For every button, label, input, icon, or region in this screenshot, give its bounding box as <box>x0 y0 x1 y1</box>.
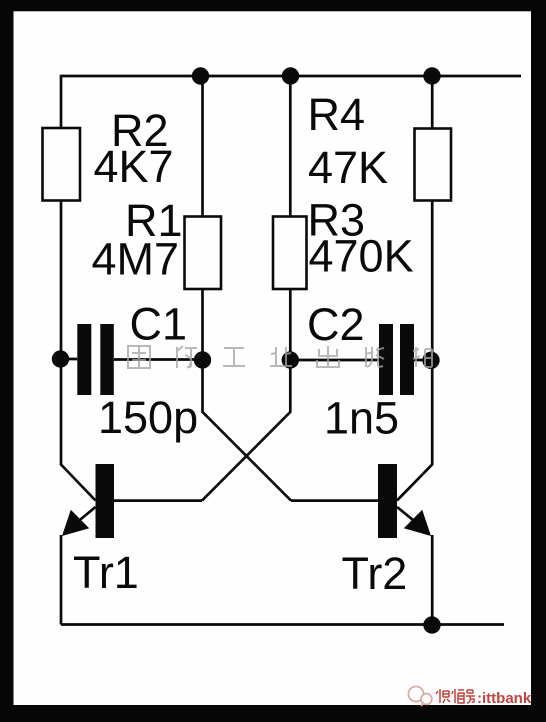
svg-text:C2: C2 <box>307 299 365 350</box>
wire Tr1 base lead <box>114 499 202 502</box>
wire R4 branch top <box>431 76 434 129</box>
wire Tr1 emitter to ground <box>60 535 63 625</box>
svg-text:4M7: 4M7 <box>92 234 180 285</box>
wire top supply rail <box>61 75 521 78</box>
wire left branch upper <box>60 75 63 128</box>
svg-text:R4: R4 <box>308 89 366 140</box>
resistor R3 <box>273 217 307 290</box>
svg-text:47K: 47K <box>308 142 388 193</box>
watermark press name row <box>128 346 432 368</box>
svg-text::ittbank: :ittbank <box>477 690 532 707</box>
wire bottom ground rail <box>61 623 504 626</box>
transistor Tr1 base bar <box>96 464 115 538</box>
wire C1 left lead <box>61 358 78 361</box>
node supply junction mid <box>282 67 299 84</box>
watermark id prefix glyphs <box>436 689 475 703</box>
transistor Tr2 base bar <box>378 464 397 538</box>
node C2 right plate <box>422 352 439 369</box>
wire cross coupling to Tr1 base <box>202 360 290 501</box>
resistor R4 <box>415 129 452 201</box>
wire Tr1 collector <box>61 359 96 501</box>
wire Tr2 emitter diagonal <box>397 507 429 533</box>
wire R1 to coupling node <box>201 289 204 360</box>
node Tr2 base coupling <box>194 351 211 368</box>
wire R1 branch top <box>201 76 204 217</box>
resistor R1 <box>185 217 222 290</box>
node ground junction <box>423 616 440 633</box>
wire C2 right lead <box>414 359 431 362</box>
transistor Tr1 emitter arrow <box>62 510 89 536</box>
wire R3 to coupling node <box>289 289 292 360</box>
wire R3 branch top <box>289 76 292 217</box>
node supply junction right <box>423 67 440 84</box>
wire C1 right lead <box>114 358 203 361</box>
wire Tr2 emitter to ground node <box>431 535 434 625</box>
wire R2 to C1 node <box>60 201 63 360</box>
node Tr1 base coupling <box>282 351 299 368</box>
wire R4 to C2 node <box>431 201 434 361</box>
wire cross coupling to Tr2 base <box>203 360 292 501</box>
wire Tr2 collector <box>397 360 432 501</box>
svg-text:Tr1: Tr1 <box>73 547 139 598</box>
wire Tr2 base lead <box>291 499 378 502</box>
node supply junction left <box>192 67 209 84</box>
svg-text:C1: C1 <box>130 299 188 350</box>
capacitor C1 <box>77 324 114 395</box>
wechat logo icon <box>408 686 432 706</box>
svg-text:150p: 150p <box>98 392 198 443</box>
svg-text:4K7: 4K7 <box>94 141 174 192</box>
wire C2 left lead <box>290 359 379 362</box>
resistor R2 <box>43 128 81 201</box>
transistor Tr2 emitter arrow <box>404 510 431 536</box>
capacitor C2 <box>379 324 414 395</box>
wire Tr1 emitter diagonal <box>64 507 96 533</box>
svg-text:Tr2: Tr2 <box>342 548 408 599</box>
svg-text:470K: 470K <box>309 231 414 282</box>
node C1 left plate <box>52 350 69 367</box>
svg-text:1n5: 1n5 <box>324 393 399 444</box>
